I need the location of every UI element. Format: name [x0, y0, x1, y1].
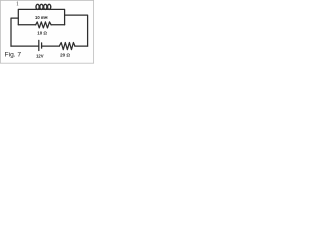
resistor R1 10 ohm zigzag — [36, 22, 51, 28]
inductor L1 10 mH coil — [36, 4, 51, 9]
svg-text:12V: 12V — [36, 53, 44, 58]
battery B1 12V — [39, 40, 42, 50]
wire resistor to bottom-right corner — [75, 45, 88, 47]
svg-text:Fig. 7: Fig. 7 — [5, 52, 22, 59]
svg-text:10 mH: 10 mH — [35, 15, 48, 20]
svg-text:1: 1 — [16, 1, 19, 7]
wire bottom-left to battery — [11, 45, 39, 47]
wire under inductor to top-right corner — [36, 9, 65, 24]
wire right jog to outer right rail — [65, 15, 88, 46]
wire middle-right segment — [51, 24, 65, 26]
wire top-left corner down to middle wire — [18, 9, 35, 24]
resistor R2 20 ohm zigzag — [59, 43, 75, 50]
svg-text:10 Ω: 10 Ω — [37, 31, 47, 36]
wire left jog to outer left rail — [11, 18, 18, 46]
wire middle-left segment — [18, 24, 35, 26]
svg-text:20 Ω: 20 Ω — [60, 53, 70, 58]
background — [0, 0, 95, 64]
frame border — [0, 0, 93, 63]
wire battery to resistor — [42, 45, 60, 47]
